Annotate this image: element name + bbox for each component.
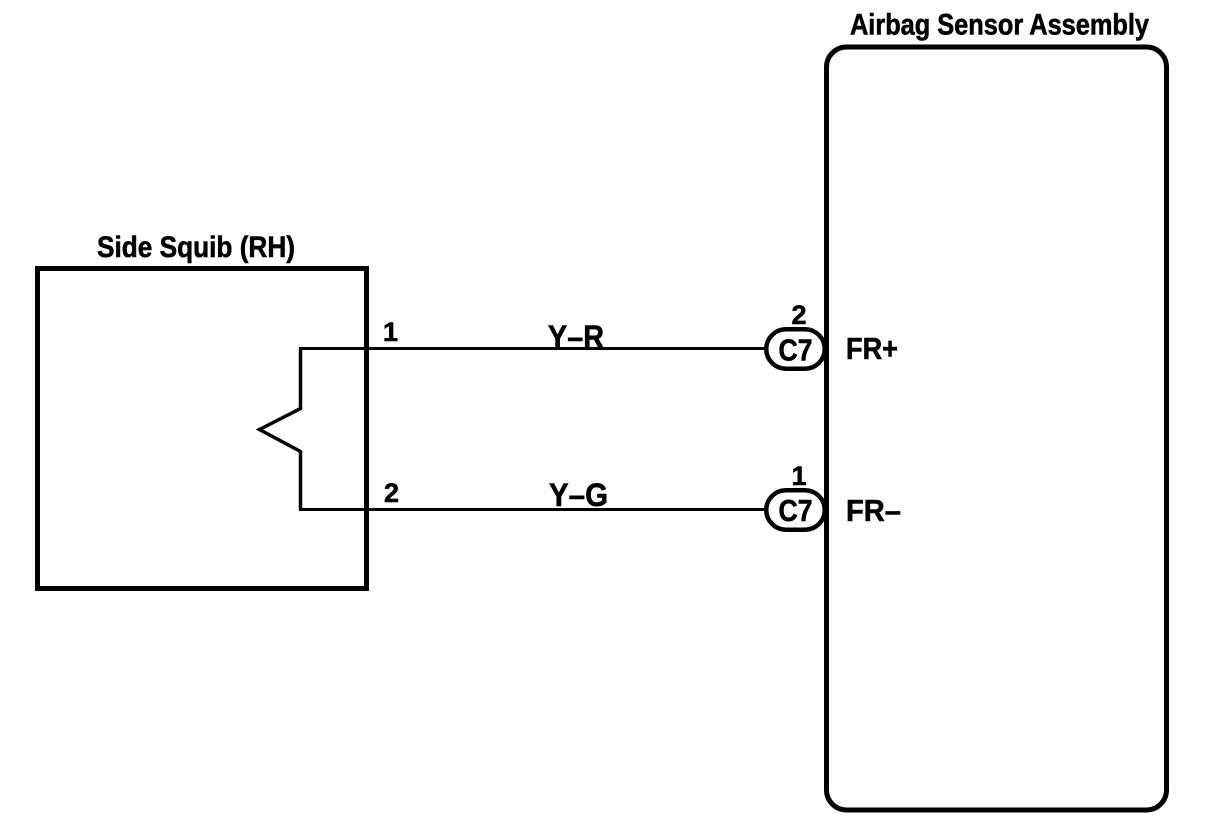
wire: squib pin 2 to airbag sensor C7 pin 1 (Y-G) xyxy=(299,508,768,511)
svg-text:FR+: FR+ xyxy=(846,331,898,366)
connector C7 oval (upper, pin 2) xyxy=(766,329,825,369)
svg-text:C7: C7 xyxy=(779,493,813,528)
svg-text:Side Squib (RH): Side Squib (RH) xyxy=(97,231,295,264)
svg-text:C7: C7 xyxy=(779,333,813,368)
svg-text:Y–R: Y–R xyxy=(548,319,604,355)
svg-text:FR–: FR– xyxy=(846,493,901,528)
box: Airbag Sensor Assembly xyxy=(827,47,1167,810)
svg-text:2: 2 xyxy=(384,478,399,508)
box: Side Squib (RH) xyxy=(38,269,367,589)
wire: squib pin 1 to airbag sensor C7 pin 2 (Y-R) xyxy=(299,347,768,350)
svg-text:Y–G: Y–G xyxy=(549,477,608,513)
connector C7 oval (lower, pin 1) xyxy=(766,490,825,530)
svg-text:1: 1 xyxy=(383,317,398,347)
squib element SQ (zigzag igniter symbol) xyxy=(260,349,301,510)
svg-text:Airbag Sensor Assembly: Airbag Sensor Assembly xyxy=(850,9,1149,42)
svg-text:2: 2 xyxy=(791,300,806,330)
svg-text:1: 1 xyxy=(791,461,806,491)
